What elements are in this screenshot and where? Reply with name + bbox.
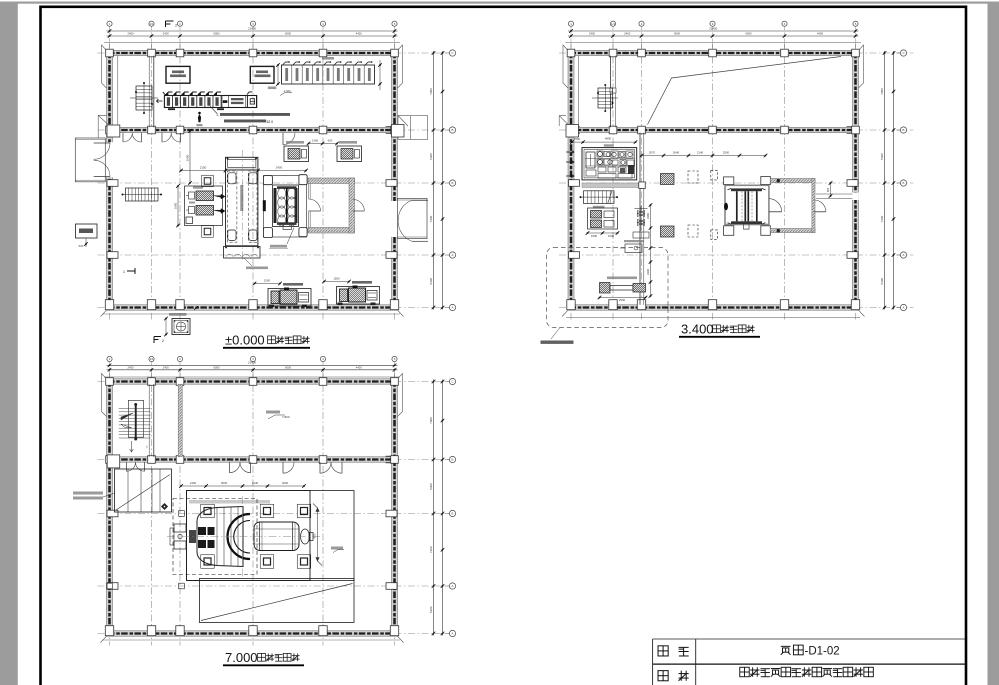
svg-text:1500: 1500 bbox=[608, 234, 615, 238]
svg-text:6000: 6000 bbox=[285, 32, 291, 36]
plan1 right room bbox=[308, 178, 355, 184]
plan2 right wall gap at bridge bbox=[851, 193, 859, 201]
svg-text:6000: 6000 bbox=[674, 32, 680, 36]
plan2 dim 950 bbox=[830, 183, 832, 196]
plan2 stair strip bbox=[584, 191, 615, 204]
plan1 foundation vertical label bbox=[240, 185, 243, 211]
plan3 wall columns bbox=[106, 378, 114, 386]
top overall dimension line bbox=[107, 30, 398, 32]
svg-text:4800: 4800 bbox=[605, 136, 612, 140]
plan3 corner canopy top-right bbox=[398, 374, 403, 417]
plan3 turbine casing bbox=[197, 507, 243, 567]
plan1 pump unit P1 bbox=[196, 191, 214, 201]
svg-text:1/1: 1/1 bbox=[149, 22, 153, 26]
plan2 right room doors bbox=[769, 211, 782, 213]
svg-text:52.0: 52.0 bbox=[267, 120, 274, 124]
svg-text:3645: 3645 bbox=[221, 481, 228, 485]
plan1 cabinet left end arrow bbox=[157, 99, 163, 103]
plan2 right room bbox=[770, 179, 815, 183]
svg-text:7.000: 7.000 bbox=[225, 650, 258, 665]
plan2 condenser pads bbox=[724, 177, 734, 185]
svg-text:900: 900 bbox=[313, 533, 317, 538]
title block mid line bbox=[653, 663, 966, 665]
plan1 corner chamfer bottom-right bbox=[398, 310, 404, 316]
svg-text:2300: 2300 bbox=[646, 269, 650, 275]
plan2 oil room equipment bbox=[586, 152, 595, 168]
svg-text:1800: 1800 bbox=[174, 202, 178, 209]
plan1 section mark 2 top bbox=[166, 21, 174, 27]
svg-text:A: A bbox=[452, 632, 454, 636]
plan1 foundation corner pads bbox=[228, 173, 236, 184]
svg-text:1300: 1300 bbox=[312, 139, 319, 143]
svg-text:B: B bbox=[452, 128, 454, 132]
plan3 left wall bbox=[107, 379, 113, 636]
plan1 cabinet row label bbox=[322, 57, 334, 60]
plan1 outside box MHK bbox=[76, 224, 98, 238]
svg-text:2360: 2360 bbox=[646, 213, 650, 219]
plan2 pump unit bbox=[588, 208, 618, 229]
plan1 wall tick at pit bbox=[195, 307, 197, 309]
plan1 left porch bbox=[75, 138, 105, 182]
plan3 pads bbox=[201, 504, 215, 518]
plan2 vertical grid lines bbox=[570, 43, 572, 320]
plan2 roof slope line bbox=[648, 57, 842, 125]
plan3 footing line bbox=[103, 639, 400, 641]
svg-text:6000: 6000 bbox=[746, 32, 752, 36]
svg-text:2150: 2150 bbox=[190, 481, 197, 485]
plan1 hall ladder strip bbox=[126, 188, 159, 201]
right grid bubbles bbox=[449, 50, 455, 56]
plan2 ejector dim bbox=[600, 297, 646, 299]
svg-text:6000: 6000 bbox=[214, 32, 220, 36]
plan3 platform inner bbox=[187, 491, 311, 581]
plan1 note leader bbox=[210, 106, 217, 114]
plan3 partition x=180 bbox=[178, 384, 182, 457]
plan2 bridge to right wall bbox=[816, 193, 853, 195]
plan2 top wall bbox=[568, 50, 859, 55]
svg-text:1/1: 1/1 bbox=[149, 357, 153, 361]
svg-text:5300: 5300 bbox=[429, 606, 433, 613]
plan1 entrance canopy corner bbox=[98, 115, 108, 138]
plan2 corner chamfer bottom-left bbox=[562, 310, 568, 316]
plan1 person symbol bbox=[198, 114, 201, 122]
plan1 horizontal grid lines bbox=[98, 52, 453, 54]
svg-text:2640: 2640 bbox=[673, 151, 680, 155]
title block label tu ming bbox=[658, 671, 668, 681]
plan1 section mark 1 left bbox=[127, 268, 135, 274]
plan3 turbine front pedestal bbox=[174, 524, 186, 532]
plan1 door B1 double bbox=[123, 133, 132, 142]
svg-text:5300: 5300 bbox=[880, 153, 884, 160]
svg-text:1500: 1500 bbox=[591, 234, 598, 238]
plan3 machine base dashed bbox=[173, 499, 257, 575]
plan1 right porch bbox=[398, 198, 428, 238]
svg-text:1500: 1500 bbox=[264, 279, 271, 283]
plan1 elev flag right bbox=[280, 93, 292, 96]
plan1 door B3 bbox=[283, 133, 295, 145]
top segment dimension line bbox=[107, 369, 398, 371]
plan1 pump unit P2 bbox=[196, 206, 214, 216]
svg-text:2.: 2. bbox=[217, 113, 220, 117]
plan1 partition x=151.5 upper bbox=[153, 56, 155, 128]
plan2 wall columns bbox=[567, 49, 575, 57]
svg-text:A: A bbox=[903, 306, 905, 310]
plan1 wall columns bbox=[106, 49, 114, 57]
plan1 top wall bbox=[107, 50, 398, 55]
plan3 interior wall bbox=[107, 457, 398, 462]
plan1 transformer box T2 bbox=[250, 66, 274, 83]
title block drawing number bbox=[781, 646, 791, 654]
plan3 stair label bbox=[73, 492, 103, 495]
plan1 foundation base label leader bbox=[244, 258, 252, 266]
plan1 left wall bbox=[107, 50, 113, 310]
plan1 oil unit U2 bbox=[337, 146, 362, 162]
plan2 ejector pump unit bbox=[600, 283, 611, 294]
svg-text:7.800: 7.800 bbox=[282, 415, 290, 419]
top grid bubbles bbox=[107, 356, 112, 361]
svg-text:2400: 2400 bbox=[163, 365, 169, 369]
svg-text:2500: 2500 bbox=[619, 298, 626, 302]
svg-text:1500: 1500 bbox=[333, 277, 340, 281]
plan3 turbine exhaust U bbox=[228, 514, 250, 559]
top grid bubbles bbox=[568, 21, 573, 26]
svg-text:7200: 7200 bbox=[429, 546, 433, 553]
plan3 top wall bbox=[107, 379, 398, 384]
svg-text:2600: 2600 bbox=[186, 154, 190, 161]
plan3 right wall bbox=[392, 379, 398, 636]
svg-text:A: A bbox=[903, 253, 905, 257]
plan3 horizontal grid lines bbox=[98, 381, 453, 383]
plan2 bottom footing line bbox=[566, 317, 860, 319]
plan2 center dim line bbox=[642, 155, 766, 157]
svg-text:2400: 2400 bbox=[276, 166, 283, 170]
roof fascia line bbox=[104, 42, 400, 44]
svg-text:7900: 7900 bbox=[429, 417, 433, 424]
plan2 interior wall row B bbox=[568, 127, 859, 132]
plan1 condenser corner pads bbox=[263, 176, 272, 185]
plan2 valve stack bbox=[638, 211, 645, 217]
plan3 roof elevation flag bbox=[268, 415, 285, 419]
plan1 oil unit U1 bbox=[284, 146, 309, 162]
svg-text:2500: 2500 bbox=[723, 151, 730, 155]
svg-text:600: 600 bbox=[328, 139, 333, 143]
plan1 note text line2 bbox=[224, 120, 266, 123]
plan2 upper stair ladder bbox=[598, 88, 613, 108]
plan2 pump dim bbox=[588, 232, 618, 234]
plan1 turbine foundation bbox=[226, 157, 258, 246]
plan1 section mark 2 bottom bbox=[154, 337, 161, 344]
plan3 left pier at interior wall bbox=[107, 455, 120, 468]
svg-text:5300: 5300 bbox=[880, 278, 884, 285]
svg-text:1/1: 1/1 bbox=[611, 22, 615, 26]
plan2 corner chamfer bottom-right bbox=[859, 310, 865, 316]
plan2 corner canopy top-right bbox=[859, 45, 864, 88]
plan3 big stair box bbox=[115, 469, 172, 512]
plan3 corner chamfer bottom-right bbox=[398, 636, 404, 642]
title block label tu hao bbox=[658, 646, 668, 656]
svg-text:2400: 2400 bbox=[163, 32, 169, 36]
plan3 exciter bbox=[301, 529, 310, 544]
plan3 vertical grid lines bbox=[109, 372, 111, 646]
svg-text:1: 1 bbox=[123, 270, 125, 274]
plan1 right room door 1 bbox=[309, 210, 321, 212]
right dimension chains bbox=[433, 380, 435, 636]
plan3 upper stair bbox=[128, 400, 143, 437]
right grid bubbles bbox=[900, 50, 906, 56]
svg-text:7900: 7900 bbox=[880, 88, 884, 95]
roof fascia line bbox=[566, 42, 862, 44]
plan1 sump pit bbox=[172, 319, 190, 335]
roof fascia line bbox=[104, 376, 400, 378]
plan1 right porch doors bbox=[412, 199, 428, 201]
svg-text:3.400: 3.400 bbox=[681, 321, 714, 336]
plan1 bottom wall bbox=[107, 305, 398, 310]
plan1 generator dims bbox=[255, 283, 281, 285]
plan2 right wall bbox=[853, 50, 859, 310]
plan1 pump room outline bbox=[185, 186, 223, 226]
svg-text:21400: 21400 bbox=[248, 361, 256, 365]
plan2 platform label bbox=[551, 328, 560, 340]
top segment dimension line bbox=[107, 35, 398, 37]
plan3 diamond symbol bbox=[161, 503, 168, 510]
svg-text:4400: 4400 bbox=[817, 32, 823, 36]
plan1 vertical grid lines bbox=[109, 43, 111, 320]
svg-text:5300: 5300 bbox=[429, 483, 433, 490]
plan1 generator set G2 bbox=[337, 287, 380, 305]
plan2 left row-B canopy bbox=[559, 116, 569, 126]
plan1 foundation base bbox=[224, 247, 261, 259]
title block top line bbox=[653, 638, 966, 640]
plan1 pump room corner box bbox=[186, 217, 193, 224]
svg-text:B: B bbox=[452, 512, 454, 516]
plan2 small pipe items bbox=[633, 232, 649, 238]
svg-text:1500: 1500 bbox=[574, 137, 581, 141]
plan2 horizontal grid lines bbox=[559, 52, 914, 54]
svg-text:A: A bbox=[452, 253, 454, 257]
svg-text:2400: 2400 bbox=[128, 32, 134, 36]
svg-text:C: C bbox=[451, 380, 453, 384]
plan2 left wall inner face line bbox=[577, 56, 579, 128]
plan1 switchgear cabinet row right bbox=[282, 65, 375, 84]
title block divider bbox=[695, 639, 697, 685]
plan2 deck pads lower bbox=[661, 226, 675, 237]
svg-text:950: 950 bbox=[826, 187, 830, 192]
svg-text:±0.000: ±0.000 bbox=[225, 332, 265, 347]
plan1 condenser body bbox=[273, 185, 299, 227]
plan2 bottom wall bbox=[568, 305, 859, 310]
plan1 hall dim vertical left bbox=[189, 131, 191, 183]
plan1 door B2 double bbox=[162, 133, 171, 142]
svg-text:B: B bbox=[903, 128, 905, 132]
svg-text:2150: 2150 bbox=[200, 166, 207, 170]
plan2 left wall arrows bbox=[566, 150, 574, 154]
grey margin top strip bbox=[0, 2, 999, 4]
plan1 footing line bbox=[103, 313, 400, 315]
plan3 doors on interior wall bbox=[127, 462, 136, 471]
plan1 pit dim bbox=[165, 319, 167, 335]
plan2 vertical dim chain bbox=[650, 205, 652, 296]
plan2 condenser bbox=[725, 185, 769, 224]
svg-text:7200: 7200 bbox=[880, 215, 884, 222]
plan1 electrical room stair ladder bbox=[136, 86, 152, 110]
plan1 right room door 2 bbox=[353, 210, 365, 212]
plan1 sump pit label bbox=[169, 313, 187, 316]
right dimension chains bbox=[433, 51, 435, 310]
svg-text:7200: 7200 bbox=[429, 215, 433, 222]
plan3 generator bbox=[254, 522, 299, 551]
plan1 pump room dim bbox=[177, 186, 179, 226]
plan1 label peidianshi bbox=[268, 87, 277, 90]
plan2 oil room dim bbox=[572, 141, 636, 143]
top segment dimension line bbox=[568, 35, 859, 37]
grey margin left bbox=[0, 2, 18, 685]
svg-text:2400: 2400 bbox=[128, 365, 134, 369]
plan3 partition x=152 bbox=[148, 384, 150, 457]
plan1 transformer box T1 bbox=[166, 66, 190, 83]
plan1 hall dim horizontal bbox=[181, 170, 306, 172]
top overall dimension line bbox=[107, 364, 398, 366]
plan3 grid marker squares bbox=[179, 511, 185, 517]
plan3 bottom wall bbox=[107, 631, 398, 636]
top grid bubbles bbox=[107, 21, 112, 26]
svg-text:-1.000: -1.000 bbox=[283, 89, 291, 93]
svg-text:2: 2 bbox=[175, 24, 177, 28]
svg-text:2140: 2140 bbox=[252, 481, 259, 485]
plan3 machine centerline bbox=[167, 536, 320, 538]
right grid bubbles bbox=[449, 378, 455, 384]
plan1 corner canopy top-left bbox=[102, 45, 107, 88]
plan3 elevation 7.000 label bbox=[331, 547, 343, 550]
svg-text:2: 2 bbox=[162, 339, 164, 343]
svg-text:-D1-02: -D1-02 bbox=[805, 646, 840, 658]
plan3 corner canopy top-left bbox=[102, 374, 107, 417]
svg-text:500: 500 bbox=[79, 244, 84, 248]
plan1 left wall inner face line bbox=[117, 56, 119, 125]
plan1 right wall bbox=[392, 50, 398, 310]
svg-text:3200: 3200 bbox=[282, 481, 289, 485]
right dimension chains bbox=[884, 51, 886, 310]
plan1 deck pads row upper bbox=[202, 175, 214, 187]
plan1 right wall opening at porch bbox=[391, 201, 398, 237]
plan1 switchgear cabinet row left bbox=[164, 96, 256, 108]
svg-text:t: t bbox=[147, 445, 148, 449]
plan1 interior wall row B bbox=[107, 127, 398, 132]
plan1 foundation centerline bbox=[241, 150, 243, 262]
svg-text:21400: 21400 bbox=[709, 26, 717, 30]
plan1 left entrance doors bbox=[94, 142, 110, 144]
plan2 platform dashed boundary bbox=[547, 248, 669, 328]
plan3 dim right of machine bbox=[317, 508, 319, 561]
plan1 oil units dim bbox=[309, 143, 338, 145]
plan1 right row-B pier bbox=[392, 125, 405, 138]
top overall dimension line bbox=[568, 30, 859, 32]
plan2 hall wall x=641.5 lower bbox=[639, 133, 641, 305]
svg-text:6000: 6000 bbox=[285, 365, 291, 369]
svg-text:C: C bbox=[902, 51, 904, 55]
svg-text:2070: 2070 bbox=[649, 151, 656, 155]
plan3 floor slab with diagonal bbox=[200, 579, 355, 623]
svg-text:21400: 21400 bbox=[248, 26, 256, 30]
plan1 right row-B canopy bbox=[398, 116, 428, 140]
plan3 platform dim bbox=[181, 485, 304, 487]
plan2 corner canopy top-left bbox=[563, 45, 568, 88]
plan3 corner chamfer bottom-left bbox=[101, 636, 107, 642]
plan1 condenser label bbox=[287, 228, 294, 244]
svg-text:2400: 2400 bbox=[624, 32, 630, 36]
svg-text:7900: 7900 bbox=[429, 88, 433, 95]
svg-text:B: B bbox=[903, 181, 905, 185]
plan1 corner chamfer bottom-left bbox=[101, 310, 107, 316]
svg-text:2400: 2400 bbox=[589, 32, 595, 36]
plan1 corner canopy top-right bbox=[398, 45, 403, 88]
svg-text:B: B bbox=[452, 181, 454, 185]
plan2 left row-B pier bbox=[566, 125, 579, 138]
plan1 generator set G1 bbox=[268, 289, 311, 307]
svg-text:B: B bbox=[452, 458, 454, 462]
plan2 left wall bbox=[568, 50, 574, 310]
svg-text:2140: 2140 bbox=[697, 151, 704, 155]
plan1 right room left wall bbox=[308, 184, 310, 200]
plan1 left wall opening at entrance bbox=[106, 142, 113, 177]
plan1 condenser lattice ellipses bbox=[278, 188, 286, 199]
plan3 platform outer bbox=[187, 491, 355, 581]
svg-text:4400: 4400 bbox=[356, 32, 362, 36]
plan1 corner pier B1 bbox=[107, 125, 120, 137]
title block left border bbox=[652, 639, 654, 685]
svg-text:C: C bbox=[451, 51, 453, 55]
plan2 partition upper x=613 bbox=[610, 56, 612, 128]
plan2 oil room bbox=[582, 148, 637, 180]
plan1 deck pads row lower bbox=[202, 226, 214, 238]
svg-text:5300: 5300 bbox=[429, 153, 433, 160]
grey margin right bbox=[988, 2, 999, 685]
plan1 condenser bbox=[263, 176, 306, 237]
svg-text:6000: 6000 bbox=[214, 365, 220, 369]
svg-text:5300: 5300 bbox=[429, 278, 433, 285]
svg-text:A: A bbox=[452, 584, 454, 588]
plan2 deck pads upper bbox=[661, 174, 675, 185]
svg-text:4400: 4400 bbox=[356, 365, 362, 369]
svg-text:A: A bbox=[452, 306, 454, 310]
title block drawing name bbox=[740, 667, 749, 676]
